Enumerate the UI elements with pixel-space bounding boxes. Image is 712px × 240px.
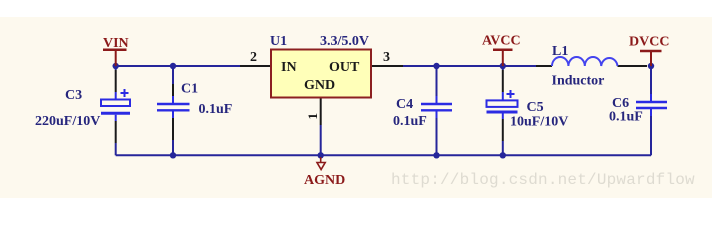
svg-text:http://blog.csdn.net/Upwardflo: http://blog.csdn.net/Upwardflow bbox=[391, 171, 695, 189]
svg-text:1: 1 bbox=[305, 113, 320, 120]
svg-text:10uF/10V: 10uF/10V bbox=[510, 115, 568, 130]
svg-text:3.3/5.0V: 3.3/5.0V bbox=[320, 34, 369, 49]
svg-text:IN: IN bbox=[281, 60, 297, 75]
svg-text:VIN: VIN bbox=[103, 36, 129, 51]
svg-text:DVCC: DVCC bbox=[629, 35, 669, 50]
svg-text:AGND: AGND bbox=[304, 173, 345, 188]
svg-text:L1: L1 bbox=[552, 44, 568, 59]
svg-text:C3: C3 bbox=[65, 88, 82, 103]
svg-text:U1: U1 bbox=[270, 34, 287, 49]
svg-text:0.1uF: 0.1uF bbox=[199, 102, 233, 117]
svg-text:C4: C4 bbox=[396, 97, 413, 112]
svg-text:C5: C5 bbox=[527, 100, 544, 115]
svg-text:2: 2 bbox=[250, 50, 257, 65]
svg-text:C1: C1 bbox=[181, 82, 198, 97]
svg-text:OUT: OUT bbox=[329, 60, 360, 75]
svg-text:220uF/10V: 220uF/10V bbox=[35, 114, 100, 129]
svg-text:0.1uF: 0.1uF bbox=[393, 114, 427, 129]
svg-text:Inductor: Inductor bbox=[552, 74, 605, 89]
svg-text:AVCC: AVCC bbox=[482, 34, 521, 49]
svg-text:3: 3 bbox=[383, 50, 390, 65]
svg-text:0.1uF: 0.1uF bbox=[609, 110, 643, 125]
svg-text:GND: GND bbox=[304, 78, 335, 93]
